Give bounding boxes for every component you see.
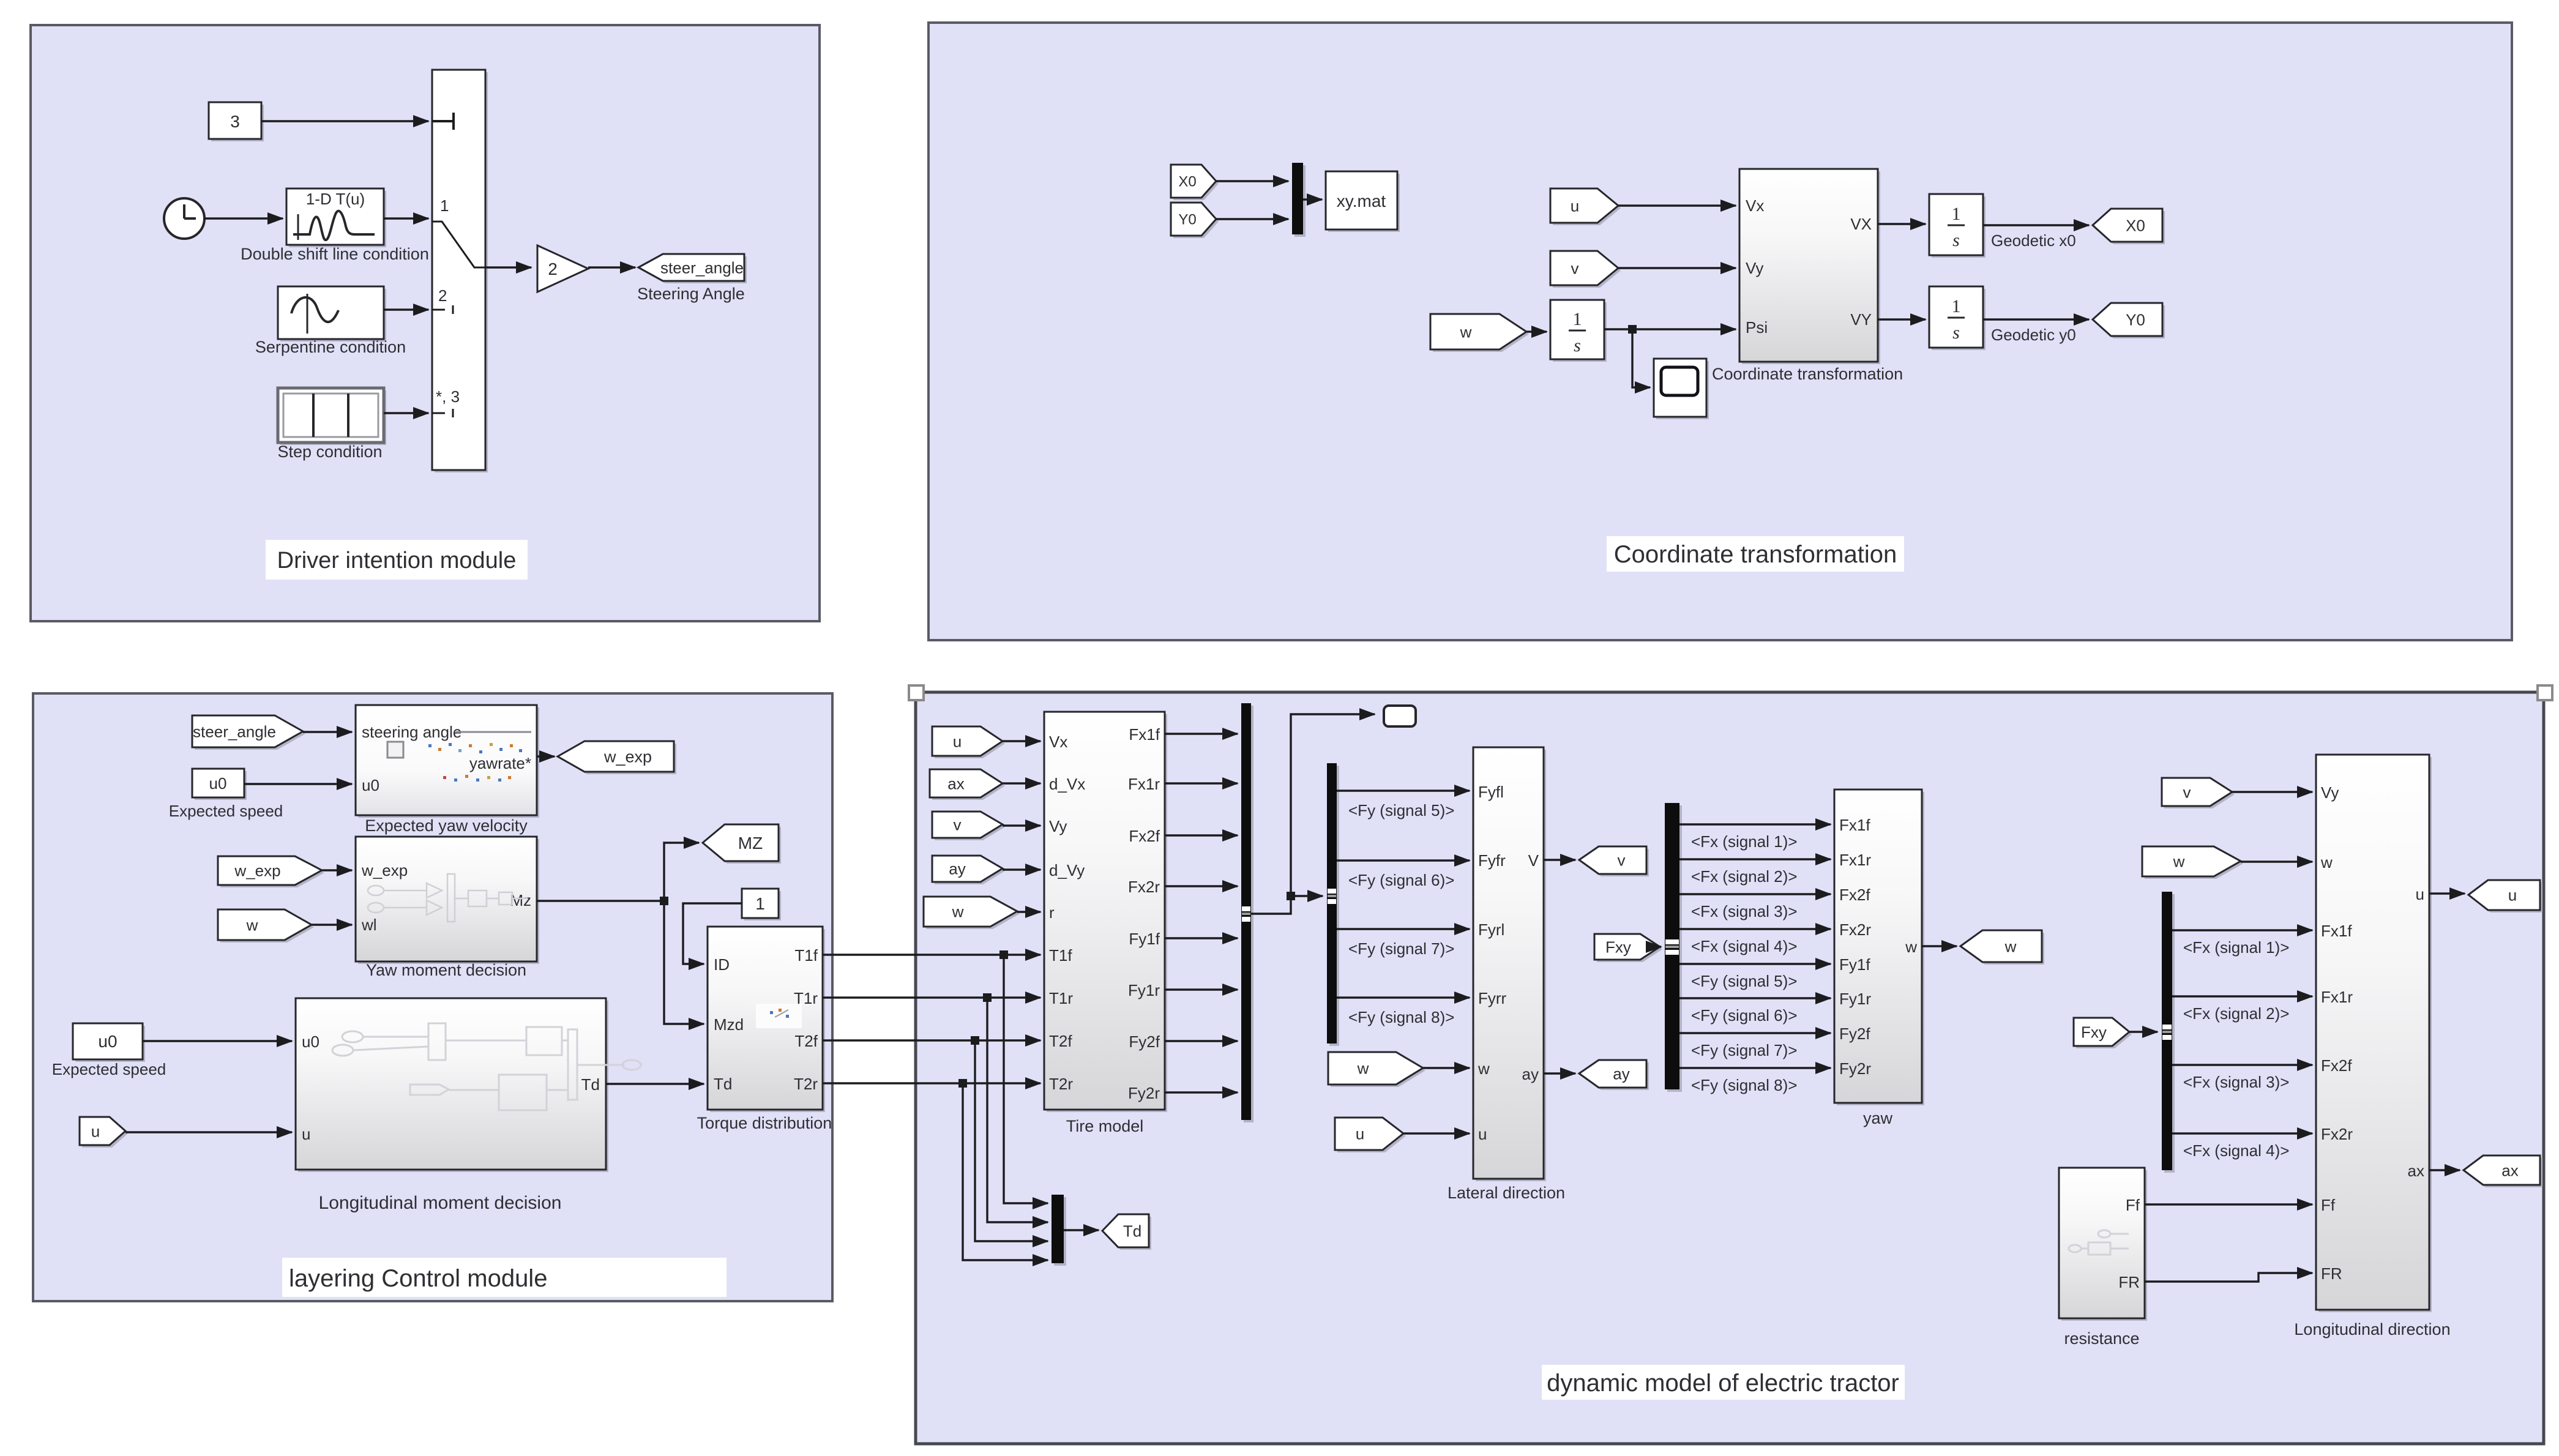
wire u to longitudinal moment decision [125, 1131, 292, 1133]
outport X0 [2095, 211, 2165, 244]
junction to fy demux [1287, 892, 1295, 900]
svg-text:Psi: Psi [1746, 318, 1768, 337]
svg-text:ax: ax [2408, 1162, 2424, 1180]
svg-text:Steering Angle: Steering Angle [637, 285, 745, 303]
junction T2f [971, 1036, 979, 1045]
wire Ff to longitudinal [2145, 1203, 2312, 1205]
panel 3 title layering Control module [282, 1258, 727, 1297]
svg-text:Coordinate transformation: Coordinate transformation [1712, 365, 1903, 383]
subsystem Torque distribution [710, 929, 825, 1112]
svg-text:Expected speed: Expected speed [169, 802, 283, 820]
junction T2r [958, 1079, 967, 1088]
svg-text:Expected speed: Expected speed [52, 1060, 166, 1078]
svg-text:Mz: Mz [510, 891, 531, 909]
svg-text:Longitudinal direction: Longitudinal direction [2294, 1320, 2450, 1338]
svg-text:<Fy (signal 5)>: <Fy (signal 5)> [1691, 972, 1797, 990]
wire w_exp to yaw moment decision [322, 869, 352, 871]
svg-text:Fx1f: Fx1f [2321, 922, 2352, 940]
svg-text:Fxy: Fxy [1605, 938, 1631, 956]
integrator 1/s psi [1553, 302, 1607, 362]
outport w yaw [1963, 933, 2044, 965]
svg-text:Fx2f: Fx2f [1839, 886, 1870, 904]
inport u tire [935, 729, 1005, 758]
svg-text:s: s [1574, 335, 1581, 356]
inport v (coord) [1553, 253, 1621, 288]
panel: Driver intention module area [31, 25, 820, 621]
subsystem yaw [1837, 792, 1924, 1105]
wire VX to integrator2 [1878, 223, 1926, 225]
outport u [2471, 883, 2542, 913]
inport X0 [1173, 167, 1219, 200]
svg-text:2: 2 [548, 259, 558, 278]
svg-text:layering Control module: layering Control module [289, 1265, 547, 1292]
svg-text:X0: X0 [1178, 174, 1196, 190]
svg-text:u0: u0 [302, 1032, 319, 1051]
svg-text:Vy: Vy [1049, 817, 1067, 835]
svg-text:v: v [954, 815, 962, 834]
svg-text:<Fy (signal 6)>: <Fy (signal 6)> [1348, 871, 1454, 889]
wire w to yaw moment decision [312, 924, 352, 925]
svg-text:u: u [1478, 1125, 1487, 1143]
svg-text:ax: ax [947, 774, 964, 793]
inport w_exp [220, 859, 324, 887]
svg-text:2: 2 [438, 286, 447, 305]
outport Y0 [2095, 305, 2165, 338]
svg-text:Y0: Y0 [1178, 212, 1196, 228]
svg-text:Coordinate transformation: Coordinate transformation [1614, 541, 1897, 568]
wire v to Vy [1618, 267, 1736, 269]
svg-text:Vx: Vx [1746, 196, 1764, 215]
wire ax to outport [2429, 1169, 2460, 1171]
subsystem Expected yaw velocity [358, 707, 539, 818]
junction T1r [983, 993, 992, 1002]
wire mux to xy.mat [1303, 198, 1322, 200]
svg-text:1: 1 [1573, 309, 1582, 329]
svg-text:s: s [1952, 230, 1960, 250]
wire integrator2 to X0 outport [1983, 224, 2089, 226]
svg-text:V: V [1528, 851, 1539, 870]
wire yaw w to outport [1922, 945, 1957, 947]
wire branch to scope [1632, 329, 1650, 387]
svg-text:Expected yaw velocity: Expected yaw velocity [365, 816, 528, 835]
svg-text:w_exp: w_exp [361, 861, 408, 879]
svg-text:v: v [2183, 783, 2191, 801]
outport Td [1105, 1217, 1151, 1250]
inport w tire [926, 899, 1020, 929]
inport w (coord) [1433, 316, 1529, 352]
svg-text:1-D T(u): 1-D T(u) [306, 190, 365, 208]
demux Fy signals [1329, 766, 1339, 1046]
gain 2 triangle [537, 245, 588, 292]
svg-text:Fx2f: Fx2f [1129, 827, 1160, 845]
svg-text:v: v [1618, 851, 1626, 869]
wire mux to Td outport [1064, 1229, 1099, 1231]
wire 3 to switch control port [261, 120, 428, 122]
branch wires down to Td mux [1004, 955, 1048, 1203]
svg-text:xy.mat: xy.mat [1337, 192, 1386, 211]
inport u lateral [1337, 1120, 1406, 1152]
wire u0 to longitudinal moment decision [143, 1040, 292, 1042]
wire serpentine to switch port2 [384, 308, 428, 310]
panel 2 title Coordinate transformation [1607, 536, 1904, 572]
svg-text:Fy2r: Fy2r [1128, 1084, 1160, 1102]
wire w to integrator [1526, 330, 1547, 332]
svg-text:<Fy (signal 8)>: <Fy (signal 8)> [1691, 1076, 1797, 1094]
svg-text:Vx: Vx [1049, 733, 1067, 751]
wires into tire model [1003, 740, 1040, 742]
integrator 1/s geodetic x0 [1932, 196, 1986, 258]
serpentine source block [280, 289, 386, 342]
svg-text:Td: Td [581, 1075, 600, 1094]
svg-text:Geodetic x0: Geodetic x0 [1991, 231, 2076, 250]
svg-text:u: u [1571, 196, 1579, 215]
wire V to v outport [1544, 859, 1575, 861]
svg-text:steer_angle: steer_angle [660, 258, 744, 277]
svg-text:1: 1 [755, 894, 765, 913]
svg-text:Td: Td [714, 1075, 732, 1093]
svg-text:Fx2f: Fx2f [2321, 1056, 2352, 1075]
outport ay [1582, 1062, 1649, 1090]
svg-text:Fyrl: Fyrl [1478, 920, 1504, 939]
svg-text:w: w [952, 902, 964, 920]
panel 4 title dynamic model of electric tractor [1542, 1365, 1905, 1400]
selection corner marker right [2538, 685, 2552, 700]
svg-text:Fy2f: Fy2f [1839, 1025, 1870, 1043]
block xy.mat To File [1328, 174, 1400, 232]
svg-text:<Fy (signal 6)>: <Fy (signal 6)> [1691, 1006, 1797, 1025]
svg-text:Fxy: Fxy [2081, 1023, 2107, 1041]
outport steer_angle / Steering Angle [641, 256, 747, 283]
svg-text:dynamic model of electric trac: dynamic model of electric tractor [1547, 1370, 1899, 1397]
svg-text:<Fy (signal 7)>: <Fy (signal 7)> [1691, 1041, 1797, 1059]
inport steer_angle [195, 718, 305, 750]
svg-text:<Fy (signal 8)>: <Fy (signal 8)> [1348, 1008, 1454, 1026]
inport ay tire [935, 858, 1005, 884]
svg-text:Fx1r: Fx1r [2321, 988, 2353, 1006]
svg-text:Fx2r: Fx2r [1839, 920, 1871, 939]
junction Mz branch [660, 897, 668, 905]
svg-text:Driver intention module: Driver intention module [277, 548, 517, 573]
svg-text:1: 1 [1952, 204, 1961, 224]
svg-text:Tire model: Tire model [1066, 1117, 1144, 1135]
svg-text:Y0: Y0 [2126, 310, 2145, 329]
subsystem resistance [2061, 1170, 2147, 1321]
wire Td to torque distribution [606, 1083, 704, 1085]
svg-text:Vy: Vy [1746, 259, 1763, 277]
svg-text:Mzd: Mzd [714, 1015, 744, 1034]
svg-text:Fx1r: Fx1r [1839, 851, 1871, 869]
svg-text:FR: FR [2118, 1273, 2140, 1291]
svg-text:w: w [1460, 323, 1472, 341]
svg-text:T1f: T1f [794, 946, 818, 965]
svg-text:w: w [1357, 1059, 1369, 1077]
svg-text:ay: ay [1522, 1065, 1539, 1083]
wire mux output to junction and demux [1251, 714, 1375, 914]
svg-text:Fy1r: Fy1r [1128, 981, 1160, 999]
svg-text:ID: ID [714, 955, 730, 974]
inport w [220, 912, 314, 943]
panel: dynamic model of electric tractor area [916, 692, 2544, 1444]
svg-text:Fy1f: Fy1f [1839, 955, 1870, 974]
svg-text:w_exp: w_exp [234, 861, 280, 879]
mux for xy.mat [1294, 165, 1306, 237]
wire u to Vx [1618, 204, 1736, 206]
svg-text:Vy: Vy [2321, 783, 2339, 802]
svg-text:w: w [1477, 1059, 1490, 1078]
svg-text:*, 3: *, 3 [436, 387, 460, 406]
svg-text:v: v [1571, 259, 1579, 277]
svg-text:u: u [91, 1122, 100, 1140]
svg-text:1: 1 [1952, 296, 1961, 316]
constant 3 [211, 105, 264, 141]
wire VY to integrator3 [1878, 318, 1926, 320]
svg-text:FR: FR [2321, 1264, 2342, 1283]
svg-text:Fy2r: Fy2r [1839, 1059, 1871, 1078]
wire switch to gain [485, 266, 531, 268]
svg-text:resistance: resistance [2064, 1329, 2139, 1348]
svg-text:<Fx (signal 1)>: <Fx (signal 1)> [1691, 832, 1797, 851]
svg-text:u: u [953, 732, 962, 750]
wire Y0 to xy mux [1216, 218, 1288, 220]
svg-text:Double shift line condition: Double shift line condition [241, 245, 429, 263]
inport w lateral [1331, 1055, 1425, 1087]
svg-text:d_Vy: d_Vy [1049, 861, 1085, 879]
junction T1f [999, 950, 1008, 959]
mux Fx for longitudinal [2164, 894, 2175, 1173]
svg-text:Torque distribution: Torque distribution [697, 1114, 832, 1132]
svg-text:<Fx (signal 3)>: <Fx (signal 3)> [2183, 1073, 2289, 1091]
mux outputs to yaw with labels [1679, 823, 1831, 825]
goto tag [1384, 706, 1416, 726]
constant u0 expected speed [195, 771, 247, 800]
svg-text:<Fx (signal 3)>: <Fx (signal 3)> [1691, 902, 1797, 920]
svg-text:T2r: T2r [1049, 1075, 1073, 1093]
svg-text:u: u [302, 1125, 310, 1143]
svg-text:Step condition: Step condition [277, 442, 382, 461]
wires tire outputs to big mux [1165, 733, 1238, 734]
svg-text:ay: ay [1613, 1064, 1629, 1083]
panel 1 title Driver intention module [266, 540, 528, 580]
svg-text:Lateral direction: Lateral direction [1448, 1184, 1565, 1202]
svg-text:1: 1 [440, 196, 449, 215]
wire steer_angle to expected yaw velocity [303, 731, 352, 733]
svg-text:3: 3 [230, 112, 240, 131]
wire junction up to MZ outport [664, 843, 699, 901]
svg-text:steering angle: steering angle [362, 723, 461, 741]
subsystem Longitudinal moment decision [298, 1001, 608, 1172]
mux outputs to longitudinal with labels [2172, 929, 2312, 931]
outport v [1582, 849, 1649, 876]
svg-text:steer_angle: steer_angle [193, 722, 276, 741]
svg-text:u0: u0 [209, 774, 227, 793]
svg-text:<Fy (signal 7)>: <Fy (signal 7)> [1348, 939, 1454, 958]
inport ax tire [932, 772, 1005, 800]
outport MZ [705, 827, 781, 864]
svg-text:yaw: yaw [1863, 1109, 1893, 1127]
multiport switch [435, 72, 488, 472]
inport Fxy to fx mux [1597, 936, 1662, 962]
inport Fxy longitudinal [2076, 1020, 2132, 1048]
wire lookup to switch port1 [384, 217, 428, 219]
svg-text:ay: ay [949, 859, 965, 878]
svg-text:<Fx (signal 4)>: <Fx (signal 4)> [1691, 937, 1797, 955]
svg-text:<Fx (signal 4)>: <Fx (signal 4)> [2183, 1141, 2289, 1160]
wire clock to lookup [204, 217, 283, 219]
demux outputs to lateral direction with labels [1337, 790, 1470, 791]
svg-text:X0: X0 [2126, 216, 2145, 234]
wire u to outport [2429, 892, 2465, 894]
svg-text:VY: VY [1850, 310, 1872, 329]
svg-text:Td: Td [1123, 1222, 1141, 1240]
panel: layering Control module area [33, 693, 832, 1301]
svg-text:w: w [246, 916, 258, 934]
svg-text:Fx1f: Fx1f [1839, 816, 1870, 834]
wire X0 to xy mux [1216, 180, 1288, 182]
wire integrator to Psi with branch to scope [1604, 328, 1736, 330]
svg-text:w: w [2004, 937, 2017, 955]
svg-text:T2f: T2f [794, 1032, 818, 1050]
inport w longitudinal [2145, 849, 2243, 879]
inport v longitudinal [2164, 780, 2235, 808]
svg-text:MZ: MZ [738, 834, 763, 853]
svg-text:<Fx (signal 2)>: <Fx (signal 2)> [2183, 1004, 2289, 1023]
mux Td [1054, 1197, 1066, 1266]
svg-text:<Fx (signal 1)>: <Fx (signal 1)> [2183, 938, 2289, 957]
svg-text:w: w [2320, 853, 2333, 872]
svg-text:wl: wl [361, 916, 377, 934]
svg-text:Fyfr: Fyfr [1478, 851, 1506, 870]
svg-text:Longitudinal moment decision: Longitudinal moment decision [319, 1193, 562, 1213]
scope block [1656, 361, 1709, 419]
svg-text:Fy2f: Fy2f [1129, 1032, 1160, 1051]
wire constant 1 to ID input [683, 903, 742, 964]
svg-text:Fx2r: Fx2r [1128, 878, 1160, 896]
wire Mz to junction [537, 900, 664, 902]
outport ax [2466, 1158, 2542, 1187]
subsystem Longitudinal direction [2318, 757, 2432, 1312]
wire u0 to block [244, 783, 352, 785]
wire block to w_exp outport [537, 755, 555, 757]
svg-text:Fy1f: Fy1f [1129, 930, 1160, 948]
svg-text:Fy1r: Fy1r [1839, 990, 1871, 1008]
big mux after tire model [1244, 706, 1253, 1122]
junction on psi wire [1628, 325, 1637, 334]
svg-text:Fyrr: Fyrr [1478, 989, 1507, 1007]
wire step to switch port3 [384, 412, 428, 414]
svg-text:w: w [2173, 852, 2185, 870]
wire junction down to Mzd input [664, 901, 704, 1024]
subsystem Coordinate transformation block [1742, 171, 1880, 364]
svg-text:d_Vx: d_Vx [1049, 775, 1085, 793]
svg-text:u: u [1356, 1124, 1364, 1143]
mux Fx Fy for yaw [1667, 805, 1682, 1092]
wire gain to steer_angle outport [588, 266, 635, 268]
subsystem Tire model [1047, 714, 1167, 1112]
svg-text:Serpentine condition: Serpentine condition [255, 338, 406, 356]
constant u0 expected speed 2 [75, 1026, 145, 1062]
svg-text:u: u [2508, 886, 2517, 904]
constant 1 [744, 891, 781, 920]
svg-text:u0: u0 [98, 1032, 117, 1051]
svg-text:Fx1r: Fx1r [1128, 775, 1160, 793]
inport v tire [935, 814, 1005, 840]
inport u [82, 1119, 128, 1148]
svg-text:w_exp: w_exp [603, 748, 652, 766]
svg-text:Fyfl: Fyfl [1478, 783, 1504, 801]
panel: Coordinate transformation area [928, 23, 2512, 640]
svg-text:T2f: T2f [1049, 1032, 1072, 1050]
svg-text:Yaw moment decision: Yaw moment decision [366, 961, 526, 979]
wires T1f T1r T2f T2r from torque distribution into tire model [823, 954, 1040, 955]
wire ay to ay outport [1544, 1072, 1575, 1074]
svg-text:<Fy (signal 5)>: <Fy (signal 5)> [1348, 801, 1454, 819]
svg-text:ax: ax [2501, 1161, 2518, 1179]
svg-text:w: w [1905, 938, 1917, 956]
svg-text:T2r: T2r [794, 1075, 818, 1093]
selection corner marker left [909, 685, 924, 700]
lookup table Double shift line condition [289, 191, 386, 247]
svg-text:yawrate*: yawrate* [469, 754, 531, 772]
svg-text:Ff: Ff [2126, 1196, 2140, 1214]
outport w_exp [560, 744, 676, 774]
subsystem Yaw moment decision [358, 839, 539, 964]
svg-text:Fx1f: Fx1f [1129, 725, 1160, 744]
subsystem Lateral direction [1476, 750, 1546, 1181]
inport Y0 [1173, 205, 1219, 238]
svg-text:T1f: T1f [1049, 946, 1072, 965]
svg-text:VX: VX [1850, 215, 1872, 233]
inport u (coord) [1553, 191, 1621, 225]
wire integrator3 to Y0 outport [1983, 318, 2089, 320]
wire FR to longitudinal with jog [2145, 1273, 2312, 1282]
clock [164, 198, 204, 239]
step condition block [280, 390, 386, 445]
integrator 1/s geodetic y0 [1932, 289, 1986, 350]
svg-text:r: r [1049, 903, 1055, 922]
svg-text:T1r: T1r [1049, 989, 1073, 1007]
svg-text:<Fx (signal 2)>: <Fx (signal 2)> [1691, 867, 1797, 886]
svg-text:Ff: Ff [2321, 1196, 2336, 1214]
svg-text:Geodetic y0: Geodetic y0 [1991, 326, 2076, 344]
svg-text:s: s [1952, 323, 1960, 343]
svg-text:u: u [2416, 885, 2424, 903]
svg-text:Fx2r: Fx2r [2321, 1125, 2353, 1143]
svg-text:u0: u0 [362, 776, 379, 794]
